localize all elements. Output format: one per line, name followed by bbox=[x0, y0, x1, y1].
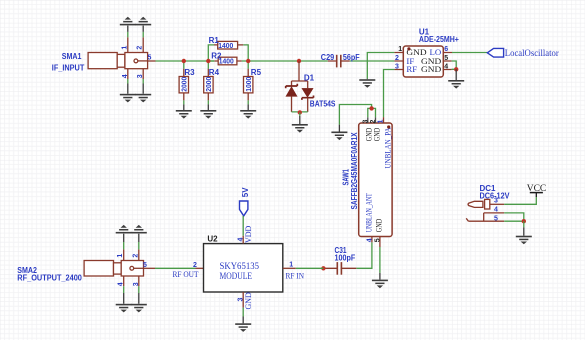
wire U2 RF IN to C31 bbox=[283, 267, 324, 269]
svg-text:2: 2 bbox=[132, 254, 139, 258]
op-amp U1 ADE-25MH+ mixer bbox=[394, 27, 459, 77]
svg-text:4: 4 bbox=[122, 74, 129, 78]
svg-text:6: 6 bbox=[444, 46, 448, 53]
ground below SMA1 pin3 bbox=[135, 94, 151, 103]
ground right of U1 bbox=[448, 69, 464, 88]
svg-text:3: 3 bbox=[133, 282, 140, 286]
node LocalOscillator net flag bbox=[487, 48, 559, 58]
svg-text:SAW1: SAW1 bbox=[341, 169, 350, 186]
svg-text:5: 5 bbox=[374, 238, 381, 242]
power flag VCC bbox=[527, 184, 547, 197]
capacitor C31 100pF bbox=[325, 246, 356, 275]
ground above SMA2 pin2 bbox=[131, 225, 147, 234]
ground below DC1 bbox=[516, 221, 532, 244]
svg-text:R1: R1 bbox=[209, 36, 220, 45]
svg-text:C29: C29 bbox=[321, 53, 335, 62]
svg-text:2: 2 bbox=[137, 46, 144, 50]
svg-text:3: 3 bbox=[137, 74, 144, 78]
SMA2 pin numbers bbox=[117, 254, 147, 287]
svg-text:D1: D1 bbox=[304, 74, 315, 83]
wire SAW1 pin4 to C31 bbox=[356, 242, 372, 268]
svg-text:5: 5 bbox=[494, 216, 498, 223]
wire SAW1 top GND pins to ground bbox=[339, 105, 375, 125]
wire R4 node to R2 left lead bbox=[208, 60, 214, 62]
svg-text:2000: 2000 bbox=[180, 77, 189, 92]
ground above SMA2 pin1 bbox=[116, 225, 132, 234]
node junction at D1 bottom bbox=[298, 110, 302, 114]
ground under R3 bbox=[176, 104, 192, 118]
capacitor C29 56pF bbox=[321, 53, 360, 68]
svg-text:4: 4 bbox=[366, 238, 373, 242]
resistor R5 1000 vertical bbox=[244, 61, 262, 104]
wire U1 pin3 RF down to SAW1 bbox=[384, 70, 395, 118]
diode D1 BAT54S bbox=[286, 61, 336, 112]
svg-text:VDD: VDD bbox=[244, 225, 253, 243]
resistor R4 2000 vertical bbox=[204, 61, 220, 104]
svg-text:SAFFB2G45MA0F0AR1X: SAFFB2G45MA0F0AR1X bbox=[350, 132, 359, 210]
wire SMA2 pin5 to U2 RF OUT bbox=[144, 267, 204, 269]
svg-text:GND: GND bbox=[244, 292, 253, 310]
ground top-left above SMA1 pin1 bbox=[120, 17, 136, 26]
svg-text:1000: 1000 bbox=[244, 77, 253, 92]
resistor R1 1400 horizontal bbox=[209, 36, 238, 50]
ground below U2 bbox=[235, 323, 251, 332]
svg-text:ADE-25MH+: ADE-25MH+ bbox=[419, 35, 459, 44]
connector DC1 barrel jack bbox=[466, 184, 510, 222]
svg-text:GND: GND bbox=[421, 64, 441, 74]
svg-text:R5: R5 bbox=[251, 68, 262, 77]
svg-text:IF_INPUT: IF_INPUT bbox=[52, 64, 85, 73]
svg-text:UNBLAN_ANT: UNBLAN_ANT bbox=[364, 193, 373, 232]
svg-text:R4: R4 bbox=[209, 68, 220, 77]
connector SMA2 bbox=[84, 261, 143, 277]
ground under R5 bbox=[240, 104, 256, 118]
svg-text:1400: 1400 bbox=[218, 41, 233, 50]
ground under R4 bbox=[200, 104, 216, 118]
wire U1 pin1 GND to ground bbox=[367, 53, 394, 80]
resistor R3 2000 vertical bbox=[179, 61, 195, 104]
svg-text:1: 1 bbox=[121, 46, 128, 50]
node 5V power flag bbox=[240, 187, 251, 216]
svg-text:UNBLAN_PA: UNBLAN_PA bbox=[384, 127, 393, 168]
ground below SMA1 pin4 bbox=[120, 94, 136, 103]
svg-text:5: 5 bbox=[148, 55, 152, 62]
wire C29 right to U1 pin2 IF bbox=[341, 60, 394, 62]
svg-text:1: 1 bbox=[289, 261, 293, 268]
svg-text:3: 3 bbox=[494, 197, 498, 204]
svg-text:4: 4 bbox=[444, 63, 448, 70]
svg-text:GND: GND bbox=[373, 128, 382, 142]
svg-text:2: 2 bbox=[395, 55, 399, 62]
wire U2 GND pin3 to ground bbox=[242, 292, 244, 323]
svg-text:3: 3 bbox=[395, 63, 399, 70]
node junction at DC1 ground bbox=[522, 219, 526, 223]
svg-text:1: 1 bbox=[378, 120, 385, 124]
node junction at U1 pin4 bbox=[454, 67, 458, 71]
svg-text:2: 2 bbox=[193, 262, 197, 269]
svg-text:GND: GND bbox=[375, 219, 384, 233]
svg-text:4: 4 bbox=[118, 282, 125, 286]
svg-text:100pF: 100pF bbox=[335, 253, 356, 262]
svg-text:1: 1 bbox=[398, 46, 402, 53]
svg-text:1: 1 bbox=[117, 254, 124, 258]
svg-text:U2: U2 bbox=[207, 235, 218, 244]
svg-text:BAT54S: BAT54S bbox=[310, 99, 336, 108]
svg-text:MODULE: MODULE bbox=[220, 272, 253, 282]
wire U1 pin5/pin4 to ground bbox=[452, 61, 457, 69]
svg-text:R3: R3 bbox=[184, 68, 195, 77]
ground below SAW1 pin5 bbox=[372, 280, 388, 289]
SMA2 pin stubs top/bottom bbox=[124, 234, 139, 304]
wire 5V flag to U2 VDD pin4 bbox=[242, 216, 244, 244]
node junction on RF line at C31 bbox=[321, 266, 325, 270]
ground top above SMA1 pin2 bbox=[135, 17, 151, 26]
ground left of U1 bbox=[359, 79, 375, 88]
svg-text:RF: RF bbox=[406, 64, 417, 74]
wire SAW1 pin5 to ground bbox=[379, 247, 381, 280]
svg-text:RF IN: RF IN bbox=[286, 271, 305, 280]
ground below SMA2 pin4 bbox=[116, 304, 132, 313]
svg-text:2: 2 bbox=[370, 120, 377, 124]
ground under D1 bbox=[292, 112, 308, 132]
ground left of SAW1 bbox=[331, 125, 347, 140]
svg-text:4: 4 bbox=[494, 207, 498, 214]
resistor R2 1400 horizontal bbox=[211, 51, 237, 65]
svg-text:56pF: 56pF bbox=[343, 53, 360, 62]
SMA1 pin numbers bbox=[121, 46, 151, 79]
wire U1 pin6 LO to flag bbox=[452, 52, 487, 54]
ground below SMA2 pin3 bbox=[131, 304, 147, 313]
svg-text:RF OUT: RF OUT bbox=[173, 270, 199, 279]
svg-text:R2: R2 bbox=[211, 51, 222, 60]
SMA1 pin stubs top/bottom bbox=[128, 26, 143, 94]
svg-text:3: 3 bbox=[362, 120, 369, 124]
wire R2 right to D1 node to C29 bbox=[214, 60, 336, 62]
wire SMA1 pin5 to R3 node bbox=[148, 60, 214, 62]
connector SMA1 bbox=[88, 53, 148, 69]
svg-text:VCC: VCC bbox=[527, 184, 547, 194]
svg-text:SKY65135: SKY65135 bbox=[220, 262, 260, 272]
svg-text:5: 5 bbox=[444, 55, 448, 62]
wire R1 branch bbox=[208, 45, 248, 61]
wire DC1 pin4/pin5 to junction bbox=[504, 213, 524, 221]
svg-text:LocalOscillator: LocalOscillator bbox=[505, 48, 559, 58]
node junction above SAW1 bbox=[369, 106, 373, 110]
node junction dots on main IF line bbox=[182, 59, 302, 63]
wire DC1 pin3 to VCC bbox=[504, 197, 536, 204]
svg-text:RF_OUTPUT_2400: RF_OUTPUT_2400 bbox=[17, 274, 82, 283]
svg-text:5V: 5V bbox=[241, 187, 250, 197]
amplifier module U2 SKY65135 bbox=[173, 225, 305, 309]
svg-text:SMA1: SMA1 bbox=[62, 52, 82, 61]
svg-text:2000: 2000 bbox=[204, 77, 213, 92]
SAW filter SAW1 SAFFB2G45MA0F0AR1X bbox=[341, 117, 392, 247]
